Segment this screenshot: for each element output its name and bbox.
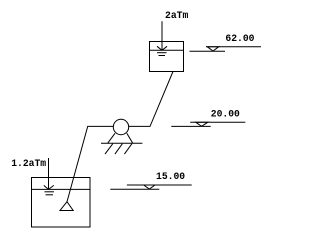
- pump base line: [101, 142, 142, 144]
- tank T1 (lower left): [32, 178, 91, 228]
- tank T2 (upper right): [150, 42, 184, 72]
- arrow pressure right tank: [157, 21, 167, 55]
- svg-text:62.00: 62.00: [225, 33, 254, 44]
- foot valve strainer triangle: [60, 202, 73, 211]
- pump support legs: [108, 133, 133, 143]
- svg-text:1.2aTm: 1.2aTm: [11, 158, 46, 169]
- suction pipe from pump to tank T1: [67, 126, 113, 201]
- water surface tank T2: [150, 49, 184, 51]
- svg-text:20.00: 20.00: [211, 108, 240, 119]
- pump base hatching: [105, 144, 132, 154]
- pump P1 circle: [113, 119, 128, 134]
- svg-text:15.00: 15.00: [156, 171, 185, 182]
- pipe from tank T2 to pump: [129, 72, 173, 127]
- water surface tank T1: [32, 188, 91, 190]
- svg-text:2aTm: 2aTm: [165, 10, 188, 21]
- arrow pressure left tank: [44, 158, 54, 195]
